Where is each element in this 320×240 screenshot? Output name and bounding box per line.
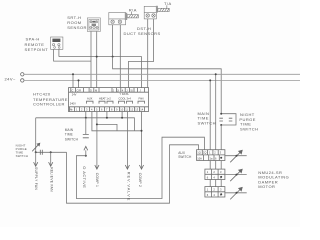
- svg-text:J(: J(: [117, 88, 119, 92]
- svg-text:TIME: TIME: [65, 133, 73, 137]
- svg-text:3: 3: [220, 170, 222, 174]
- node room-right junction: [96, 56, 98, 58]
- svg-text:2Q: 2Q: [203, 151, 206, 155]
- svg-text:COMP 1: COMP 1: [95, 173, 99, 187]
- wire SPA-H left terminal to common: [54, 49, 91, 61]
- svg-text:6: 6: [207, 176, 209, 180]
- svg-text:2: 2: [213, 170, 215, 174]
- main time switch contact: [83, 135, 89, 151]
- comp2 wire and arrow: [141, 112, 143, 169]
- wire night purge drop: [35, 118, 37, 153]
- wire step y124.4: [97, 124, 117, 130]
- svg-text:4: 4: [213, 176, 215, 180]
- svg-text:O ACTIVE: O ACTIVE: [82, 166, 87, 188]
- wire duct1 right to controller: [119, 25, 121, 88]
- wire rail1 to controller C: [72, 74, 74, 87]
- node duct1-left junction: [112, 56, 114, 58]
- comp1 wire and arrow: [96, 112, 98, 169]
- main time switch (right) label: [198, 111, 216, 126]
- svg-text:C/R: C/R: [77, 88, 82, 92]
- svg-text:10A: 10A: [197, 156, 202, 160]
- svg-text:COMP 2: COMP 2: [138, 173, 142, 187]
- node rail1 right junction: [215, 73, 217, 75]
- wire cell2 stub to HB: [85, 112, 87, 118]
- damper block2: [205, 169, 225, 179]
- svg-text:CONTROLLER: CONTROLLER: [33, 102, 65, 107]
- night purge switch contact: [32, 143, 40, 151]
- svg-text:D: D: [90, 88, 92, 92]
- svg-text:R\A: R\A: [129, 7, 137, 12]
- wire 24V rail 2: [24, 79, 300, 81]
- svg-text:24V~: 24V~: [5, 77, 16, 82]
- terminal letters top row: [70, 88, 142, 105]
- svg-text:Y DATA: Y DATA: [120, 92, 129, 96]
- svg-text:6: 6: [215, 156, 217, 160]
- node rail2 junction: [78, 79, 80, 81]
- duct sensor 2 (T/A): [144, 6, 169, 19]
- remote setpoint SPA-H unit: [51, 37, 63, 49]
- svg-text:SWITCH: SWITCH: [65, 138, 79, 142]
- wire room sensor right to common: [96, 31, 98, 87]
- damper motor label: [258, 170, 289, 189]
- wire loop2 fans to block: [67, 145, 199, 203]
- relieve fan arrow: [50, 152, 52, 166]
- aux switch label: [178, 151, 192, 159]
- wire time switch to block: [220, 125, 222, 150]
- aux switch block (block1): [197, 150, 225, 161]
- svg-text:T/A: T/A: [164, 1, 172, 6]
- wire cell3 step y130.8: [92, 112, 142, 131]
- node bypass top: [220, 113, 222, 115]
- main time switch label (left): [65, 128, 79, 142]
- night purge switch label: [16, 143, 29, 158]
- svg-text:C: C: [72, 88, 74, 92]
- node rail1 C junction: [72, 73, 74, 75]
- wire active line: [85, 150, 87, 155]
- damper motor arrow 1: [225, 155, 247, 157]
- svg-text:1: 1: [207, 170, 209, 174]
- wires block2 to block3: [210, 180, 221, 187]
- node block3 dot: [220, 193, 222, 195]
- wire fan feed horizontal: [36, 151, 67, 153]
- svg-text:SWITCH: SWITCH: [240, 127, 258, 132]
- node comp2 junction: [141, 130, 143, 132]
- svg-text:DUCT SENSORS: DUCT SENSORS: [124, 31, 161, 36]
- svg-text:M: M: [95, 88, 97, 92]
- rev.valve wire and arrow: [126, 112, 128, 169]
- terminal group D M: [88, 88, 90, 93]
- svg-text:FAN: FAN: [139, 96, 144, 100]
- night purge time switch contact (right): [229, 118, 233, 121]
- node HB junction 2: [106, 117, 108, 119]
- remote setpoint SPA-H label: [25, 37, 49, 53]
- wire main time switch drop: [85, 118, 87, 134]
- node relieve fan junction: [50, 151, 52, 153]
- svg-text:COOL 3+4: COOL 3+4: [119, 96, 132, 100]
- node HB junction 1: [85, 117, 87, 119]
- wire time switch bypass loop: [221, 114, 236, 125]
- node aux block dot: [220, 157, 222, 159]
- svg-text:5): 5): [131, 88, 133, 92]
- svg-text:SPA-H: SPA-H: [26, 37, 40, 42]
- svg-text:HEAT 1+2: HEAT 1+2: [99, 96, 111, 100]
- main time switch contact (right): [219, 118, 223, 121]
- duct sensor 1 (R\A): [109, 13, 139, 25]
- wire SPA-H right terminal to controller: [58, 49, 60, 56]
- node supply fan junction: [35, 151, 37, 153]
- wires block1 to block2: [210, 161, 221, 170]
- night purge time switch (right) label: [239, 112, 258, 132]
- wire rail2 to controller C/R: [78, 80, 80, 87]
- svg-text:6: 6: [207, 193, 209, 197]
- svg-text:4: 4: [213, 193, 215, 197]
- controller HTC420 label: [33, 92, 68, 107]
- svg-text:SETPOINT: SETPOINT: [25, 47, 49, 52]
- room sensor SRT-H label: [67, 15, 87, 30]
- svg-text:MOTOR: MOTOR: [258, 184, 275, 189]
- damper block3: [205, 187, 225, 197]
- svg-text:SUPPLY FAN: SUPPLY FAN: [34, 167, 38, 190]
- terminal cell single: [137, 88, 139, 93]
- damper motor arrow 3: [225, 192, 247, 194]
- svg-text:SENSOR: SENSOR: [67, 25, 87, 30]
- svg-text:RELIEVE FAN: RELIEVE FAN: [49, 167, 53, 192]
- wire duct2 right elbow: [128, 19, 153, 88]
- duct sensors caption DST-H: [124, 26, 161, 36]
- terminal group J J(4J5): [111, 88, 113, 93]
- node bypass bottom: [220, 124, 222, 126]
- svg-text:3: 3: [220, 188, 222, 192]
- svg-text:SWITCH: SWITCH: [16, 154, 29, 158]
- wire bottom bus HB: [36, 118, 135, 131]
- aux block labels: [197, 151, 221, 161]
- controller HTC420 box: [69, 88, 149, 112]
- node active junction: [85, 155, 87, 157]
- node HB junction 3: [121, 117, 123, 119]
- contact in fan feed: [40, 150, 42, 155]
- 24V terminal circles: [21, 73, 24, 76]
- relay labels and contacts inside controller: [87, 96, 145, 103]
- node rail2 right junction: [209, 79, 211, 81]
- wire loop1 active to block: [76, 137, 204, 198]
- svg-text:1: 1: [209, 151, 211, 155]
- controller bottom terminal row: [69, 107, 149, 112]
- svg-text:3: 3: [220, 151, 222, 155]
- svg-text:1a: 1a: [210, 156, 213, 160]
- svg-text:SWITCH: SWITCH: [198, 121, 216, 126]
- wire duct1 left to common: [112, 25, 114, 57]
- svg-text:2: 2: [214, 151, 216, 155]
- svg-text:MAIN: MAIN: [65, 128, 74, 132]
- damper motor arrow 2: [225, 174, 247, 176]
- wire rail1 to aux block: [215, 74, 217, 149]
- bottom terminal numbers: [70, 108, 144, 112]
- svg-text:240V: 240V: [70, 101, 76, 105]
- room sensor SRT-H unit: [87, 18, 100, 32]
- wire room sensor left to controller: [90, 31, 92, 87]
- wire rail2 to aux block: [209, 80, 211, 149]
- svg-text:24V: 24V: [72, 92, 77, 96]
- svg-text:AUX: AUX: [87, 96, 93, 100]
- supply fan arrow: [35, 152, 37, 166]
- svg-text:1: 1: [207, 188, 209, 192]
- svg-text:SWITCH: SWITCH: [178, 155, 192, 159]
- wire cell6 stub to HB: [106, 112, 108, 118]
- duct sensor 1 label R\A: [129, 7, 137, 12]
- wire long run to time switch: [113, 57, 222, 114]
- wire common sensor bus H1: [59, 57, 142, 88]
- node block2 dot: [220, 176, 222, 178]
- wire duct2 left to controller: [147, 19, 149, 88]
- wire cell10 stub to HB: [121, 112, 123, 118]
- terminal group C C/R: [70, 88, 72, 93]
- svg-text:REV.VALVE: REV.VALVE: [126, 172, 131, 202]
- duct sensor 2 label T/A: [164, 1, 172, 6]
- svg-text:1Q: 1Q: [197, 151, 200, 155]
- svg-text:2: 2: [213, 188, 215, 192]
- wire 24V rail 1: [24, 73, 300, 75]
